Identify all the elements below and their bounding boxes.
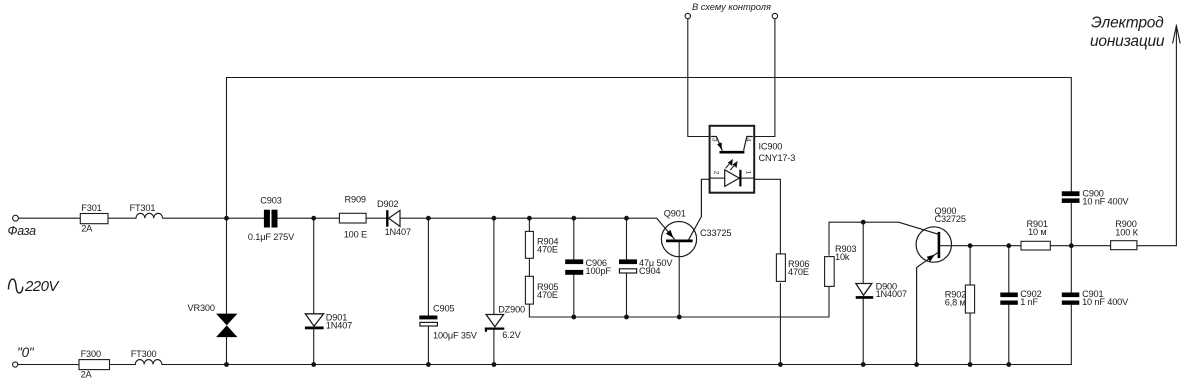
capacitor C904 (electrolytic) [619, 259, 637, 273]
svg-text:100 E: 100 E [344, 229, 367, 239]
wire: R905 to node line [528, 304, 530, 317]
wire: C902 to bottom bus [1008, 305, 1010, 365]
svg-text:10 м: 10 м [1028, 227, 1047, 237]
wire: node B down to D901 [313, 218, 315, 314]
svg-text:100pF: 100pF [586, 266, 612, 276]
terminal: control circuit right [772, 13, 777, 18]
zener diode DZ900 [486, 315, 504, 332]
wire: C904 to node line [626, 274, 628, 317]
junction R904 top [527, 216, 532, 221]
diode D902 [387, 210, 400, 227]
wire: D901 to bottom bus [313, 329, 315, 364]
junction D901 bottom [311, 362, 316, 367]
svg-text:470E: 470E [788, 267, 809, 277]
svg-text:Фаза: Фаза [8, 224, 37, 238]
wire: node line (base divider rail) [529, 316, 829, 318]
optocoupler IC900 body [710, 126, 755, 193]
svg-text:C32725: C32725 [935, 214, 966, 224]
wire: VR300 to bottom bus [226, 337, 228, 364]
svg-text:0.1μF 275V: 0.1μF 275V [248, 232, 295, 242]
transistor Q900 [899, 222, 952, 364]
junction C904 top [624, 216, 629, 221]
svg-text:IC900: IC900 [759, 142, 783, 152]
varistor VR300 [216, 314, 237, 338]
node B junction (D901) [311, 216, 316, 221]
transistor Q901 [657, 179, 710, 256]
junction C902 bottom [1006, 362, 1011, 367]
svg-text:FT301: FT301 [130, 203, 156, 213]
svg-text:1: 1 [744, 171, 751, 175]
svg-text:6.2V: 6.2V [502, 330, 521, 340]
svg-text:Электрод: Электрод [1091, 15, 1164, 32]
svg-text:FT300: FT300 [131, 349, 157, 359]
wire: C906 to node line [573, 275, 575, 317]
svg-text:C33725: C33725 [700, 228, 731, 238]
resistor R905 [525, 276, 533, 304]
wire: C905 to bottom bus [427, 326, 429, 364]
svg-text:Q901: Q901 [664, 209, 686, 219]
terminal: control circuit left [685, 13, 690, 18]
wire: R903 top to collector line [828, 222, 830, 255]
resistor R901 [1021, 241, 1050, 250]
wire: left riser node A to top bus [226, 78, 228, 219]
svg-text:2A: 2A [81, 370, 93, 380]
svg-text:3: 3 [710, 138, 717, 142]
junction DZ900 top [492, 216, 497, 221]
wire: main line to R904 [528, 218, 530, 231]
wire: IC900 pin 4 to right control terminal [754, 19, 775, 137]
wire: F301 to FT301 [108, 217, 136, 219]
diode D900 [856, 284, 874, 299]
junction C905 bottom [426, 362, 431, 367]
svg-text:470E: 470E [537, 245, 558, 255]
wire: node to R902 [969, 246, 971, 285]
junction R902 bottom [968, 362, 973, 367]
wire: node to C902 [1008, 246, 1010, 293]
resistor R902 [965, 285, 974, 313]
electrode arrowhead [1173, 26, 1181, 44]
wire: bottom bus FT300 to C901 corner [162, 364, 1071, 366]
svg-text:10k: 10k [835, 252, 850, 262]
svg-text:CNY17-3: CNY17-3 [759, 153, 796, 163]
resistor R909 [339, 213, 366, 223]
resistor R903 [825, 257, 835, 287]
resistor R904 [525, 231, 533, 258]
capacitor C903 (series dropper) [264, 210, 278, 228]
wire: C900 to mid node [1070, 203, 1072, 246]
sine symbol for 220V [8, 279, 22, 293]
wire: FT301 to node A [163, 217, 264, 219]
svg-text:100μF 35V: 100μF 35V [433, 330, 478, 340]
svg-text:C904: C904 [639, 266, 660, 276]
svg-text:10 nF 400V: 10 nF 400V [1082, 297, 1129, 307]
svg-text:10 nF 400V: 10 nF 400V [1082, 196, 1129, 206]
junction C906 bottom on node line [571, 315, 576, 320]
svg-text:DZ900: DZ900 [498, 305, 525, 315]
svg-text:D902: D902 [377, 199, 398, 209]
wire: top bus [227, 77, 1072, 79]
wire: C901 to bottom bus corner [1070, 305, 1072, 365]
wire: electrode riser [1175, 25, 1177, 246]
junction Q901 base on node line [677, 315, 682, 320]
wire: IC900 pin 1 to R906 [754, 179, 780, 254]
resistor R900 [1111, 241, 1137, 250]
capacitor C902 [1000, 293, 1018, 305]
IC900 phototransistor [711, 137, 753, 153]
wire: D902 to Q901 emitter corner [400, 217, 657, 219]
wire: C903 to node B [278, 217, 340, 219]
wire: collector line down to D900 [862, 222, 864, 283]
capacitor C901 [1062, 293, 1080, 305]
junction C906 top [571, 216, 576, 221]
wire: R900 to electrode riser [1137, 245, 1177, 247]
svg-text:1N407: 1N407 [326, 321, 352, 331]
junction Q900 emitter bottom [914, 362, 919, 367]
svg-text:VR300: VR300 [188, 303, 215, 313]
svg-text:470E: 470E [537, 290, 558, 300]
wire: Q900 collector line [829, 221, 899, 223]
terminal: Фаза input [13, 215, 19, 221]
junction D900 bottom [861, 362, 866, 367]
inductor FT300 [135, 360, 162, 365]
svg-text:1 nF: 1 nF [1020, 297, 1038, 307]
wire: main line down to C905 [427, 218, 429, 315]
inductor FT301 [136, 213, 163, 218]
wire: R901 to C900/C901 node [1050, 245, 1110, 247]
wire: phase input to F301 [18, 217, 80, 219]
terminal: "0" neutral input [13, 362, 18, 367]
svg-text:2: 2 [713, 171, 720, 175]
wire: R906 to bottom bus [779, 283, 781, 364]
junction C900/C901 mid node [1069, 243, 1074, 248]
junction C905 top [426, 216, 431, 221]
junction C904 bottom on node line [624, 315, 629, 320]
svg-text:F301: F301 [81, 203, 101, 213]
junction D900 top [861, 220, 866, 225]
junction R906 bottom [778, 362, 783, 367]
svg-text:R909: R909 [345, 195, 366, 205]
node A junction [224, 216, 229, 221]
junction DZ900 bottom [492, 362, 497, 367]
fuse F300 [79, 360, 110, 370]
wire: DZ900 to bottom bus [493, 329, 495, 365]
wire: top bus down to C900 [1070, 78, 1072, 192]
svg-text:100 К: 100 К [1115, 228, 1138, 238]
resistor R906 [776, 254, 785, 282]
IC900 LED [710, 170, 755, 187]
svg-text:6,8 м: 6,8 м [945, 297, 966, 307]
capacitor C900 [1062, 191, 1080, 203]
wire: R904 to R905 [528, 258, 530, 276]
wire: bottom bus neutral to F300 [18, 364, 79, 366]
wire: D900 to bottom bus [862, 299, 864, 365]
wire: base node to R901 [970, 245, 1021, 247]
svg-text:ионизации: ионизации [1090, 33, 1165, 50]
wire: node A down to VR300 [226, 218, 228, 313]
wire: R902 to bottom bus [969, 313, 971, 364]
diode D901 [305, 314, 324, 330]
wire: mid node to C901 [1070, 246, 1072, 293]
wire: R909 to D902 [366, 217, 386, 219]
junction C902 top [1006, 243, 1011, 248]
svg-text:"0": "0" [17, 345, 35, 360]
junction R902 top [968, 243, 973, 248]
wire: main line down to DZ900 [493, 218, 495, 314]
wire: F300 to FT300 [110, 364, 136, 366]
wire: Q901 base to node line [678, 242, 680, 317]
svg-text:2A: 2A [81, 223, 93, 233]
wire: main line to C906 [573, 218, 575, 259]
fuse F301 [80, 214, 108, 224]
wire: left control terminal to IC900 pin 3 [688, 19, 710, 137]
svg-text:4: 4 [744, 138, 751, 142]
svg-text:1N4007: 1N4007 [876, 289, 907, 299]
capacitor C905 (electrolytic) [419, 316, 437, 327]
capacitor C906 [565, 259, 583, 274]
junction VR300 bottom [224, 362, 229, 367]
svg-text:1N407: 1N407 [385, 227, 411, 237]
svg-text:C905: C905 [433, 303, 454, 313]
wire: main line to C904 [626, 218, 628, 259]
svg-text:220V: 220V [24, 278, 60, 295]
svg-text:В схему контроля: В схему контроля [692, 2, 771, 12]
svg-text:F300: F300 [81, 349, 101, 359]
svg-text:C903: C903 [260, 195, 281, 205]
wire: node line up to R903 bottom [828, 287, 830, 318]
IC900 LED emission arrows [726, 160, 737, 170]
wire: Q900 base lead [940, 245, 970, 247]
